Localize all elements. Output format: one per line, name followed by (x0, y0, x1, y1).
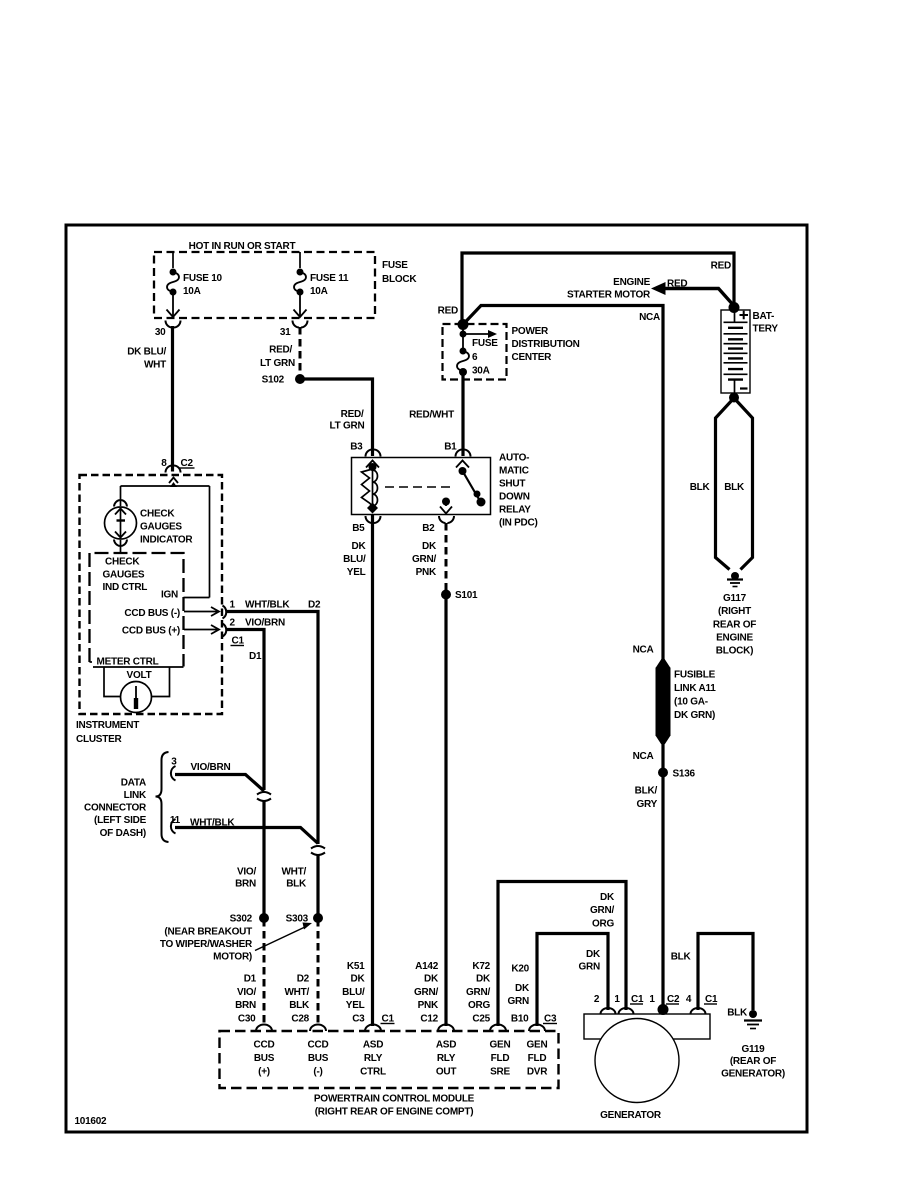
svg-text:GRN: GRN (508, 996, 530, 1007)
svg-text:CCD: CCD (254, 1040, 275, 1051)
svg-text:1: 1 (614, 994, 620, 1005)
svg-text:DOWN: DOWN (499, 492, 530, 503)
fuse F11 10A (294, 252, 349, 317)
wire D2 dashed S303 to PCM C28 (284, 919, 318, 1026)
PCM terminal bumps (256, 1025, 545, 1032)
svg-text:FLD: FLD (528, 1053, 547, 1064)
wire BLK/GRY S136 to generator C2 (635, 773, 663, 1013)
cluster internal feed lines (121, 486, 210, 598)
IGN wire (161, 590, 210, 601)
svg-text:BLK: BLK (289, 1000, 310, 1011)
wire VIO/BRN DLC pin3 (175, 762, 264, 791)
svg-text:BAT-: BAT- (753, 311, 775, 322)
svg-text:SHUT: SHUT (499, 479, 525, 490)
svg-text:GRN/: GRN/ (414, 987, 438, 998)
svg-text:DK BLU/: DK BLU/ (127, 347, 166, 358)
svg-text:ASD: ASD (363, 1040, 383, 1051)
svg-text:S102: S102 (262, 375, 285, 386)
svg-text:GRN/: GRN/ (590, 905, 614, 916)
battery negative cable BLK loop (690, 398, 753, 570)
svg-text:GENERATOR: GENERATOR (600, 1110, 662, 1121)
svg-text:S302: S302 (230, 914, 253, 925)
svg-text:METER CTRL: METER CTRL (97, 657, 159, 668)
svg-text:ENGINE: ENGINE (716, 633, 753, 644)
pin 31 connector (280, 321, 308, 339)
wire K72 GEN FLD SRE: PCM C25 to generator terminal 1 (466, 882, 626, 1027)
splice S136 (658, 768, 696, 780)
svg-text:K20: K20 (511, 964, 529, 975)
svg-text:B2: B2 (422, 523, 435, 534)
svg-text:(10 GA-: (10 GA- (674, 697, 708, 708)
svg-text:B5: B5 (352, 523, 365, 534)
svg-text:LT GRN: LT GRN (260, 358, 295, 369)
svg-text:GAUGES: GAUGES (103, 570, 145, 581)
svg-text:D2: D2 (308, 600, 321, 611)
CCD BUS (+) pin 2 (122, 618, 236, 637)
svg-text:INSTRUMENT: INSTRUMENT (76, 720, 139, 731)
svg-text:ASD: ASD (436, 1040, 456, 1051)
wire RED/LT GRN pin31 to S102 (dashed) (260, 327, 300, 375)
svg-text:CTRL: CTRL (360, 1067, 386, 1078)
svg-text:BRN: BRN (235, 879, 256, 890)
svg-text:LT GRN: LT GRN (330, 421, 365, 432)
svg-text:C28: C28 (291, 1014, 309, 1025)
svg-text:1: 1 (230, 600, 236, 611)
svg-text:K51: K51 (347, 961, 365, 972)
svg-text:C12: C12 (420, 1014, 438, 1025)
svg-text:VOLT: VOLT (127, 670, 152, 681)
svg-text:D1: D1 (244, 974, 257, 985)
svg-text:30: 30 (155, 327, 166, 338)
svg-text:VIO/: VIO/ (237, 987, 256, 998)
splice location note with arrow (160, 923, 312, 963)
wire BLK generator 4 to ground G119 (671, 934, 753, 1019)
svg-text:A142: A142 (415, 961, 439, 972)
svg-text:4: 4 (686, 994, 692, 1005)
splice S101 (441, 590, 478, 602)
svg-text:NCA: NCA (639, 312, 660, 323)
svg-text:CCD BUS (-): CCD BUS (-) (124, 608, 180, 619)
fusible link A11 (656, 657, 717, 748)
svg-text:FUSE 11: FUSE 11 (310, 273, 349, 284)
svg-text:30A: 30A (472, 366, 490, 377)
svg-text:POWER: POWER (512, 326, 550, 337)
svg-text:WHT/BLK: WHT/BLK (245, 600, 290, 611)
svg-text:REAR OF: REAR OF (713, 620, 756, 631)
svg-text:CHECK: CHECK (140, 509, 175, 520)
svg-text:B10: B10 (511, 1014, 529, 1025)
svg-text:BLU/: BLU/ (342, 987, 365, 998)
svg-text:ORG: ORG (592, 919, 615, 930)
wire S101 to PCM C12 (444, 595, 447, 1027)
svg-text:ENGINE: ENGINE (613, 277, 650, 288)
svg-text:VIO/BRN: VIO/BRN (245, 618, 285, 629)
svg-text:C30: C30 (238, 1014, 256, 1025)
DLC pin 11 connector (170, 815, 181, 834)
svg-text:10A: 10A (310, 286, 328, 297)
battery (721, 302, 778, 403)
svg-text:10A: 10A (183, 286, 201, 297)
svg-text:RED/: RED/ (269, 345, 292, 356)
svg-text:BUS: BUS (308, 1053, 329, 1064)
svg-text:2: 2 (230, 618, 236, 629)
wire K51 label column (342, 961, 365, 1025)
svg-text:FUSE: FUSE (382, 260, 408, 271)
svg-text:C25: C25 (472, 1014, 490, 1025)
generator (584, 1014, 710, 1121)
wire into cluster with up arrow (169, 478, 178, 488)
svg-text:STARTER MOTOR: STARTER MOTOR (567, 290, 651, 301)
wire VIO/BRN inline to S302 (235, 801, 264, 914)
inline connector on VIO/BRN (257, 792, 271, 801)
relay pin B2 stub (440, 498, 452, 514)
svg-text:BLK: BLK (724, 482, 745, 493)
svg-text:BLOCK: BLOCK (382, 274, 417, 285)
fuse 6 30A in PDC (457, 325, 498, 377)
svg-text:DK: DK (515, 983, 530, 994)
wire WHT/BLK inline to S303 (281, 856, 318, 915)
check gauges ind ctrl box (90, 553, 184, 667)
inline connector on WHT/BLK (311, 846, 325, 855)
svg-text:RLY: RLY (437, 1053, 456, 1064)
check gauges indicator lamp (105, 500, 194, 553)
automatic shut down relay box (352, 453, 538, 529)
svg-text:GRN/: GRN/ (466, 987, 490, 998)
svg-text:VIO/BRN: VIO/BRN (191, 762, 231, 773)
relay pin B5 connector (352, 514, 380, 534)
relay pin B3 connector (350, 442, 380, 457)
wire A142 label column (414, 961, 439, 1025)
svg-text:(IN PDC): (IN PDC) (499, 518, 538, 529)
generator terminal 2 (594, 994, 616, 1014)
svg-text:TERY: TERY (753, 324, 779, 335)
svg-text:WHT/: WHT/ (281, 867, 306, 878)
svg-text:MOTOR): MOTOR) (213, 952, 252, 963)
svg-text:CCD BUS (+): CCD BUS (+) (122, 626, 180, 637)
svg-text:WHT/: WHT/ (284, 987, 309, 998)
svg-text:FUSIBLE: FUSIBLE (674, 670, 716, 681)
svg-text:BLU/: BLU/ (343, 554, 366, 565)
CCD BUS (-) pin 1 (124, 600, 235, 620)
border frame (66, 225, 807, 1132)
wire RED/LT GRN S102 to relay B3 (300, 379, 373, 456)
relay pin B2 connector (422, 516, 454, 534)
power distribution center box (443, 324, 580, 380)
svg-text:(+): (+) (258, 1067, 270, 1078)
svg-text:FUSE 10: FUSE 10 (183, 273, 223, 284)
cluster pin 8 connector C2 (161, 458, 194, 473)
svg-text:CHECK: CHECK (105, 557, 140, 568)
svg-text:1: 1 (649, 994, 655, 1005)
svg-text:GAUGES: GAUGES (140, 522, 182, 533)
svg-text:FLD: FLD (491, 1053, 510, 1064)
svg-text:GRY: GRY (636, 799, 657, 810)
svg-text:GRN: GRN (579, 962, 601, 973)
generator terminal 1 C1 (614, 994, 644, 1014)
svg-text:CONNECTOR: CONNECTOR (84, 803, 147, 814)
svg-text:K72: K72 (472, 961, 490, 972)
svg-text:TO WIPER/WASHER: TO WIPER/WASHER (160, 939, 253, 950)
wire NCA below fusible link (633, 745, 663, 770)
generator terminal C2 (output) with node (649, 994, 680, 1015)
powertrain control module box (220, 1031, 559, 1118)
svg-text:(-): (-) (313, 1067, 322, 1078)
svg-text:DK GRN): DK GRN) (674, 710, 715, 721)
fuse block box (154, 252, 417, 318)
engine starter motor feed arrow (567, 277, 735, 307)
svg-text:S136: S136 (673, 769, 696, 780)
svg-text:NCA: NCA (633, 751, 654, 762)
instrument cluster box (76, 475, 222, 745)
svg-text:B1: B1 (444, 442, 457, 453)
svg-text:GEN: GEN (490, 1040, 511, 1051)
svg-text:BLK: BLK (690, 482, 711, 493)
svg-text:OUT: OUT (436, 1067, 457, 1078)
svg-text:S101: S101 (455, 590, 478, 601)
svg-text:8: 8 (161, 458, 167, 469)
node RED junction at PDC (438, 306, 469, 331)
svg-text:DK: DK (586, 949, 601, 960)
svg-text:VIO/: VIO/ (237, 867, 256, 878)
svg-text:BLK: BLK (671, 952, 692, 963)
svg-text:GENERATOR): GENERATOR) (721, 1069, 785, 1080)
svg-text:(LEFT SIDE: (LEFT SIDE (94, 815, 147, 826)
ground G117 (713, 572, 756, 657)
generator terminal 4 C1 (686, 994, 718, 1014)
svg-text:DK: DK (476, 974, 491, 985)
svg-text:LINK A11: LINK A11 (674, 683, 716, 694)
PCM C1 connector label (381, 1014, 395, 1025)
svg-text:RED: RED (667, 279, 687, 290)
relay switch (456, 461, 486, 507)
svg-text:RLY: RLY (364, 1053, 383, 1064)
svg-text:PNK: PNK (416, 567, 437, 578)
svg-text:RED/: RED/ (341, 409, 364, 420)
svg-text:G117: G117 (723, 593, 747, 604)
svg-text:AUTO-: AUTO- (499, 453, 529, 464)
svg-text:DK: DK (351, 974, 366, 985)
svg-text:DK: DK (424, 974, 439, 985)
svg-text:WHT/BLK: WHT/BLK (190, 818, 235, 829)
ground G119 (721, 1010, 785, 1080)
svg-text:BLOCK): BLOCK) (716, 646, 753, 657)
svg-text:NCA: NCA (633, 645, 654, 656)
svg-text:POWERTRAIN CONTROL MODULE: POWERTRAIN CONTROL MODULE (314, 1094, 475, 1105)
svg-text:IND CTRL: IND CTRL (103, 582, 148, 593)
svg-text:BLK: BLK (727, 1008, 748, 1019)
svg-text:31: 31 (280, 327, 291, 338)
svg-text:2: 2 (594, 994, 600, 1005)
svg-text:RELAY: RELAY (499, 505, 531, 516)
svg-text:CENTER: CENTER (512, 352, 553, 363)
svg-text:RED: RED (438, 306, 458, 317)
wire RED/WHT fuse6 to relay B1 (409, 374, 463, 456)
svg-text:INDICATOR: INDICATOR (140, 535, 193, 546)
wire DK BLU/YEL relay B5 to PCM C3 (343, 514, 372, 1026)
svg-text:OF DASH): OF DASH) (100, 828, 146, 839)
svg-text:CCD: CCD (308, 1040, 329, 1051)
wire NCA: PDC node to fusible link (463, 306, 663, 661)
wire DK BLU/WHT pin30 to cluster pin8 (127, 326, 172, 472)
svg-text:YEL: YEL (346, 1000, 365, 1011)
svg-text:HOT IN RUN OR START: HOT IN RUN OR START (189, 241, 296, 252)
svg-text:SRE: SRE (490, 1067, 510, 1078)
relay coil (362, 461, 380, 514)
svg-text:BLK: BLK (286, 879, 307, 890)
svg-text:(NEAR BREAKOUT: (NEAR BREAKOUT (164, 927, 252, 938)
wire DK GRN/PNK relay B2 to S101 (dashed) (412, 523, 446, 590)
svg-text:G119: G119 (742, 1044, 766, 1055)
svg-text:(RIGHT REAR OF ENGINE COMPT): (RIGHT REAR OF ENGINE COMPT) (315, 1107, 474, 1118)
data link connector brace and label (84, 752, 169, 842)
fuse F10 10A (167, 252, 223, 317)
meter ctrl label (92, 655, 184, 668)
splice S302 (230, 913, 269, 925)
svg-text:MATIC: MATIC (499, 466, 529, 477)
svg-text:RED/WHT: RED/WHT (409, 410, 454, 421)
svg-text:DK: DK (422, 541, 437, 552)
svg-text:BUS: BUS (254, 1053, 275, 1064)
PCM C3 connector label (543, 1014, 557, 1025)
svg-text:GEN: GEN (527, 1040, 548, 1051)
DLC pin 3 connector (171, 757, 177, 781)
svg-text:6: 6 (472, 352, 478, 363)
relay coil-switch dashed link (385, 486, 452, 488)
svg-text:DK: DK (352, 541, 367, 552)
svg-text:YEL: YEL (347, 567, 366, 578)
wire D1 dashed S302 to PCM C30 (235, 919, 264, 1026)
wire WHT/BLK DLC pin11 (175, 818, 318, 844)
relay pin B1 connector (444, 442, 470, 457)
svg-text:FUSE: FUSE (472, 338, 498, 349)
svg-text:(REAR OF: (REAR OF (730, 1056, 776, 1067)
svg-text:(RIGHT: (RIGHT (718, 606, 751, 617)
wire WHT/BLK pin1 to inline connector (D2) (227, 600, 321, 845)
svg-text:BLK/: BLK/ (635, 786, 658, 797)
svg-text:GRN/: GRN/ (412, 554, 436, 565)
svg-text:DATA: DATA (121, 778, 146, 789)
splice S102 (262, 374, 305, 386)
wire VIO/BRN pin2 to inline connector (D1) (227, 618, 285, 791)
svg-text:C3: C3 (352, 1014, 365, 1025)
svg-text:ORG: ORG (468, 1000, 491, 1011)
svg-text:CLUSTER: CLUSTER (76, 734, 123, 745)
wire RED top loop: PDC node to battery positive (462, 253, 734, 326)
svg-text:DISTRIBUTION: DISTRIBUTION (512, 339, 580, 350)
svg-text:D1: D1 (249, 651, 262, 662)
svg-text:BRN: BRN (235, 1000, 256, 1011)
svg-text:B3: B3 (350, 442, 363, 453)
svg-text:101602: 101602 (75, 1116, 108, 1127)
svg-text:IGN: IGN (161, 590, 178, 601)
svg-text:DVR: DVR (527, 1067, 548, 1078)
volt gauge (104, 667, 170, 713)
pin 30 connector (155, 321, 181, 339)
svg-text:LINK: LINK (124, 790, 147, 801)
svg-text:RED: RED (711, 261, 731, 272)
svg-text:D2: D2 (297, 974, 310, 985)
splice S303 (286, 913, 323, 925)
svg-text:WHT: WHT (144, 360, 166, 371)
svg-text:DK: DK (600, 892, 615, 903)
svg-text:PNK: PNK (418, 1000, 439, 1011)
wire K20 GEN FLD DVR: PCM B10 to generator terminal 2 (508, 934, 608, 1027)
